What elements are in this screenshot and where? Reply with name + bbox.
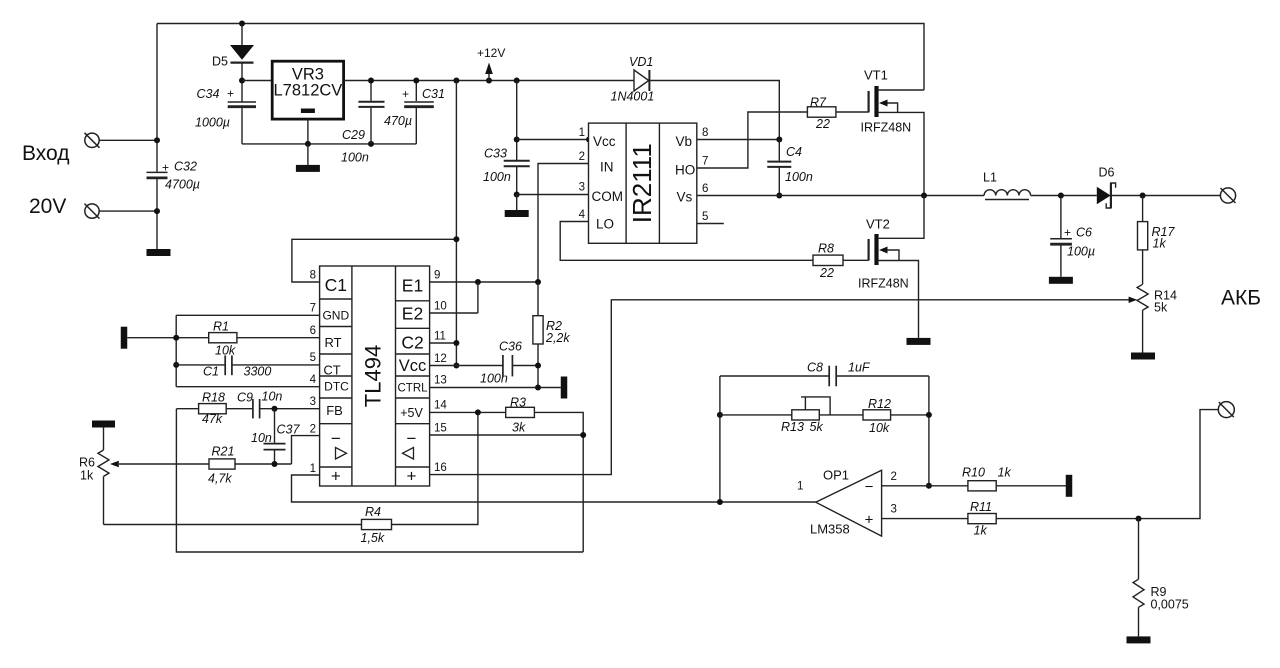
wire feedback middle row [720, 414, 929, 416]
svg-text:C31: C31 [422, 87, 445, 101]
capacitor C8 [807, 361, 871, 387]
wire IR2111 pin8 Vb [697, 139, 780, 141]
junction C2 Vcc branch [453, 340, 459, 346]
capacitor C1 timing [203, 355, 271, 378]
wire R21 row [119, 463, 292, 465]
ground bar R10 [1066, 475, 1073, 497]
junction pin14 R4 branch [475, 409, 481, 415]
svg-text:C9: C9 [237, 391, 253, 405]
svg-text:R8: R8 [818, 242, 834, 256]
ground below C32 [147, 249, 171, 256]
wire IR2111 pin1 Vcc [517, 139, 589, 141]
svg-text:5k: 5k [810, 420, 824, 434]
wire pin13 CTRL to ground [430, 387, 561, 389]
svg-text:0,0075: 0,0075 [1151, 598, 1189, 612]
wire top rail to VT1 drain [157, 24, 924, 91]
svg-text:CT: CT [323, 363, 340, 378]
wire R4 row [104, 412, 478, 524]
svg-text:R4: R4 [365, 505, 381, 519]
junction feedback mid right [926, 412, 932, 418]
svg-text:R12: R12 [868, 397, 891, 411]
wire feedback right vertical [928, 376, 930, 486]
svg-text:3300: 3300 [244, 365, 272, 379]
resistor R10 [962, 466, 1011, 491]
svg-text:22: 22 [815, 117, 830, 131]
transistor VT2 IRFZ48N [858, 196, 924, 338]
junction opamp output feedback [717, 499, 723, 505]
wire VR3 ground row [242, 143, 416, 145]
svg-text:11: 11 [434, 331, 446, 343]
svg-text:C1: C1 [325, 275, 347, 295]
ground bar left of R1 [121, 327, 128, 349]
wire TL494 pin16 to R14 wiper [430, 300, 1134, 475]
svg-text:3: 3 [310, 396, 316, 408]
svg-text:100n: 100n [341, 151, 369, 165]
svg-text:C2: C2 [401, 333, 423, 353]
svg-text:47k: 47k [202, 412, 223, 426]
junction R11 R9 [1136, 516, 1142, 522]
svg-text:R13: R13 [781, 420, 804, 434]
svg-text:COM: COM [592, 189, 624, 204]
resistor R2 [533, 282, 570, 388]
svg-text:Vs: Vs [677, 190, 693, 205]
svg-text:+: + [162, 161, 169, 175]
svg-text:R6: R6 [79, 456, 95, 470]
svg-text:L1: L1 [983, 171, 997, 185]
svg-text:2: 2 [310, 424, 316, 436]
svg-text:100n: 100n [785, 170, 813, 184]
svg-text:1k: 1k [80, 469, 94, 483]
junction VR3 gnd pin [305, 141, 311, 147]
junction C33 branch [514, 78, 520, 84]
inductor L1 [983, 171, 1031, 200]
svg-text:10n: 10n [262, 390, 283, 404]
junction C37 top [272, 406, 278, 412]
junction R2 bottom Vcc row [535, 363, 541, 369]
svg-text:+: + [407, 467, 417, 486]
svg-text:1,5k: 1,5k [361, 531, 385, 545]
svg-text:C29: C29 [342, 128, 365, 142]
terminal 20V [85, 204, 100, 219]
svg-text:470µ: 470µ [384, 114, 412, 128]
svg-text:IRFZ48N: IRFZ48N [861, 121, 912, 135]
wire R1 row pin6 RT [127, 337, 319, 339]
svg-text:VD1: VD1 [629, 55, 653, 69]
potentiometer R6 [79, 428, 109, 525]
wire 20V terminal to rail [99, 210, 157, 212]
wire pin9 E1 [430, 281, 538, 283]
svg-text:100µ: 100µ [1067, 245, 1095, 259]
resistor R11 [968, 500, 996, 538]
diode D5 [212, 24, 254, 102]
ground below R14 [1131, 353, 1155, 360]
ground above R6 [92, 421, 115, 428]
svg-text:8: 8 [702, 127, 708, 139]
junction C33 Vcc row [514, 137, 520, 143]
resistor R7 [807, 96, 836, 132]
resistor R12 [863, 397, 891, 435]
svg-text:5k: 5k [1154, 301, 1168, 315]
wire TL494 pin8 C1 to +12V branch [292, 239, 457, 282]
wire VR3 input [242, 80, 272, 82]
svg-text:R18: R18 [202, 391, 225, 405]
transistor VT1 IRFZ48N [861, 68, 925, 196]
svg-text:TL494: TL494 [360, 345, 385, 407]
svg-text:10k: 10k [869, 421, 890, 435]
junction R1 left bus [173, 335, 179, 341]
capacitor C34 [195, 87, 256, 144]
svg-text:+: + [402, 87, 409, 101]
junction inverting input [926, 483, 932, 489]
junction C37 bottom [272, 461, 278, 467]
wire IR2111 pin6 Vs to L1 [697, 195, 984, 197]
wire IR2111 pin4 LO to R8 [560, 222, 813, 261]
junction at IR2111 pin1 [586, 137, 592, 143]
wire left vertical rail [156, 24, 158, 250]
svg-text:L7812CV: L7812CV [273, 82, 342, 100]
svg-text:LM358: LM358 [810, 522, 850, 537]
arrow R6 wiper [110, 461, 119, 468]
junction C1 left bus [173, 362, 179, 368]
terminal output minus [1218, 402, 1234, 418]
terminal input Vhod [85, 133, 100, 148]
capacitor C4 [767, 140, 813, 196]
wire R8 to VT2 gate [843, 259, 869, 261]
svg-text:C36: C36 [499, 340, 522, 354]
junction D5 VR3 input [239, 78, 245, 84]
terminal output plus [1220, 188, 1235, 203]
svg-text:8: 8 [310, 270, 316, 282]
svg-text:16: 16 [434, 462, 447, 474]
svg-text:DTC: DTC [324, 380, 349, 394]
wire R7 to VT1 gate [836, 111, 869, 113]
wire C8 top rail [720, 375, 929, 377]
regulator VR3 L7812CV [272, 61, 343, 144]
svg-text:IRFZ48N: IRFZ48N [858, 277, 909, 291]
svg-text:4: 4 [310, 374, 317, 386]
svg-text:22: 22 [819, 266, 834, 280]
IC U1 TL494 [320, 266, 430, 486]
ground below R9 [1127, 636, 1151, 643]
svg-text:+: + [865, 512, 874, 529]
svg-text:10n: 10n [251, 431, 272, 445]
ground below C6 [1049, 277, 1073, 284]
junction input bottom [154, 208, 160, 214]
junction feedback mid left [717, 412, 723, 418]
svg-text:CTRL: CTRL [397, 383, 428, 395]
svg-text:R11: R11 [970, 500, 992, 514]
junction Vcc branch [453, 363, 459, 369]
diode VD1 1N4001 [611, 55, 655, 104]
wire pin11 C2 [430, 342, 457, 344]
svg-text:3k: 3k [512, 421, 526, 435]
svg-text:OP1: OP1 [823, 468, 849, 483]
wire pin5 CT with C1 [176, 364, 319, 366]
svg-text:R10: R10 [962, 466, 985, 480]
wire pin7 GND [176, 314, 319, 316]
junction pin15 R3 vertical [580, 432, 586, 438]
svg-text:FB: FB [326, 403, 343, 418]
junction E1 R2 IN [535, 279, 541, 285]
svg-text:3: 3 [579, 182, 585, 194]
potentiometer R14 [1137, 284, 1177, 352]
svg-text:GND: GND [322, 309, 349, 323]
svg-text:VT1: VT1 [864, 68, 888, 83]
svg-text:1N4001: 1N4001 [611, 90, 655, 104]
svg-text:7: 7 [702, 156, 708, 168]
IC U2 IR2111 [589, 123, 697, 243]
wire noninverting input row [882, 410, 1219, 519]
ground below C33 [505, 195, 529, 218]
svg-text:C34: C34 [197, 87, 220, 101]
svg-text:14: 14 [434, 400, 447, 412]
capacitor C29 [341, 81, 385, 165]
capacitor C32 [147, 160, 201, 192]
wire input top terminal to rail [99, 139, 157, 141]
svg-text:1k: 1k [974, 524, 988, 538]
svg-text:D5: D5 [212, 55, 228, 69]
wire left bus verticals pins 7 to 4 [175, 315, 177, 386]
ground bar CTRL [561, 377, 568, 399]
wire IR2111 pin7 HO to R7 [697, 112, 808, 168]
svg-text:C37: C37 [277, 423, 301, 437]
svg-text:6: 6 [310, 325, 316, 337]
wire D6 to output terminal [1111, 195, 1221, 197]
svg-text:−: − [331, 429, 341, 448]
svg-text:C1: C1 [203, 365, 219, 379]
amplifier symbol left [336, 448, 347, 460]
wire pin2 to R21 row [292, 436, 320, 464]
ground below VT2 source [907, 338, 931, 345]
svg-text:C4: C4 [786, 145, 802, 159]
wire pin4 DTC [176, 386, 319, 388]
junction pin8 line meets +12V vertical [453, 236, 459, 242]
resistor R17 [1138, 196, 1176, 285]
svg-text:20V: 20V [29, 195, 66, 218]
svg-text:4: 4 [579, 209, 586, 221]
resistor R18 [199, 391, 227, 427]
svg-text:1: 1 [579, 127, 585, 139]
resistor R21 [208, 445, 235, 486]
svg-text:7: 7 [310, 303, 316, 315]
power symbol +12V [477, 46, 505, 81]
svg-text:−: − [407, 429, 417, 448]
svg-text:R3: R3 [510, 396, 526, 410]
svg-text:2,2k: 2,2k [545, 331, 570, 345]
svg-text:R21: R21 [212, 445, 235, 459]
wire feedback left vertical [719, 376, 721, 502]
svg-text:−: − [865, 479, 874, 496]
svg-text:+: + [227, 87, 234, 101]
junction Vb C4 [776, 137, 782, 143]
junction CTRL R2 [535, 385, 541, 391]
svg-text:100n: 100n [480, 372, 508, 386]
svg-text:+: + [331, 467, 341, 486]
svg-text:RT: RT [324, 335, 341, 350]
svg-text:1k: 1k [1153, 237, 1167, 251]
junction top rail D5 [239, 21, 245, 27]
svg-text:100n: 100n [483, 170, 511, 184]
junction input top [154, 137, 160, 143]
wire VD1 cathode to Vb [649, 81, 779, 140]
wire R10 to ground bar [996, 485, 1066, 487]
junction C33 COM row [514, 192, 520, 198]
wire +12V rail down to TL494 Vcc [455, 81, 457, 366]
resistor R4 [361, 505, 392, 545]
svg-text:R1: R1 [213, 320, 229, 334]
ground below VR3 [296, 144, 320, 172]
wire inverting input to R10 [882, 485, 968, 487]
capacitor C36 [480, 340, 522, 386]
junction rail to TL494 Vcc branch [453, 78, 459, 84]
junction C6 top [1058, 193, 1064, 199]
svg-text:3: 3 [891, 504, 897, 516]
wire pin15 [430, 434, 584, 436]
svg-text:2: 2 [579, 151, 585, 163]
resistor R3 [506, 396, 535, 435]
junction E1 E2 tie [475, 279, 481, 285]
svg-text:C33: C33 [484, 147, 507, 161]
diode D6 [1097, 166, 1116, 209]
svg-text:10: 10 [434, 301, 447, 313]
svg-text:5: 5 [310, 352, 316, 364]
svg-text:IR2111: IR2111 [627, 143, 657, 223]
svg-text:1000µ: 1000µ [195, 116, 230, 130]
wire IR2111 pin2 IN down to TL494 E1 [538, 164, 589, 283]
svg-text:E2: E2 [402, 304, 423, 324]
junction C4 Vs [776, 193, 782, 199]
svg-text:1k: 1k [998, 466, 1012, 480]
pin 5 stub [697, 223, 724, 225]
svg-text:+: + [1064, 226, 1071, 240]
amplifier symbol right [403, 448, 414, 460]
junction Vs VT1 VT2 [921, 193, 927, 199]
svg-text:4700µ: 4700µ [165, 178, 200, 192]
svg-text:12: 12 [434, 353, 447, 365]
junction C31 top [413, 78, 419, 84]
svg-text:1: 1 [310, 463, 316, 475]
potentiometer R13 [781, 397, 830, 434]
svg-text:АКБ: АКБ [1221, 287, 1261, 310]
wire IR2111 pin3 COM [517, 194, 589, 196]
capacitor C33 [483, 81, 530, 195]
wire pin3 FB row [176, 408, 319, 410]
svg-text:2: 2 [891, 471, 897, 483]
svg-text:LO: LO [596, 217, 614, 232]
svg-text:6: 6 [702, 183, 708, 195]
capacitor C31 [384, 81, 445, 144]
wire pin14 row [430, 412, 584, 552]
wire pin1 to op-amp output [292, 475, 816, 502]
wire +12V rail from VR3 output to VD1 [344, 80, 634, 82]
svg-text:R7: R7 [810, 96, 827, 110]
svg-text:C32: C32 [174, 160, 197, 174]
wire R18 left vertical to bottom bus [176, 409, 583, 552]
junction +12V arrow [486, 78, 492, 84]
svg-text:1: 1 [797, 481, 803, 493]
svg-text:+12V: +12V [477, 46, 505, 60]
wire E1 to E2 [430, 282, 478, 313]
wire pin12 Vcc row with C36 [430, 365, 538, 367]
svg-text:D6: D6 [1099, 166, 1115, 180]
svg-text:Vcc: Vcc [399, 357, 427, 375]
arrow R14 wiper [1129, 297, 1138, 303]
svg-text:13: 13 [434, 375, 447, 387]
wire L1 to D6 [1031, 195, 1097, 197]
svg-text:Vcc: Vcc [593, 134, 616, 149]
junction C29 top [368, 78, 374, 84]
capacitor C9 [237, 390, 282, 419]
svg-text:Vb: Vb [676, 134, 693, 149]
svg-text:IN: IN [600, 160, 614, 175]
capacitor C6 [1050, 196, 1095, 277]
svg-text:HO: HO [675, 163, 695, 178]
svg-text:4,7k: 4,7k [208, 472, 232, 486]
svg-text:1uF: 1uF [848, 361, 871, 375]
svg-text:VT2: VT2 [866, 217, 890, 232]
junction C29 bottom [368, 141, 374, 147]
svg-text:C6: C6 [1076, 226, 1092, 240]
junction D6 R17 [1140, 193, 1146, 199]
shunt resistor R9 [1133, 519, 1189, 637]
resistor R8 [813, 242, 843, 281]
svg-text:15: 15 [434, 423, 447, 435]
svg-text:E1: E1 [402, 276, 423, 296]
svg-text:5: 5 [702, 211, 708, 223]
capacitor C37 [251, 409, 300, 464]
svg-text:Вход: Вход [22, 142, 70, 165]
svg-text:C8: C8 [807, 361, 823, 375]
svg-text:9: 9 [434, 270, 440, 282]
resistor R1 [209, 320, 237, 358]
svg-text:+5V: +5V [400, 406, 423, 420]
op-amp OP1 LM358 [797, 468, 882, 537]
